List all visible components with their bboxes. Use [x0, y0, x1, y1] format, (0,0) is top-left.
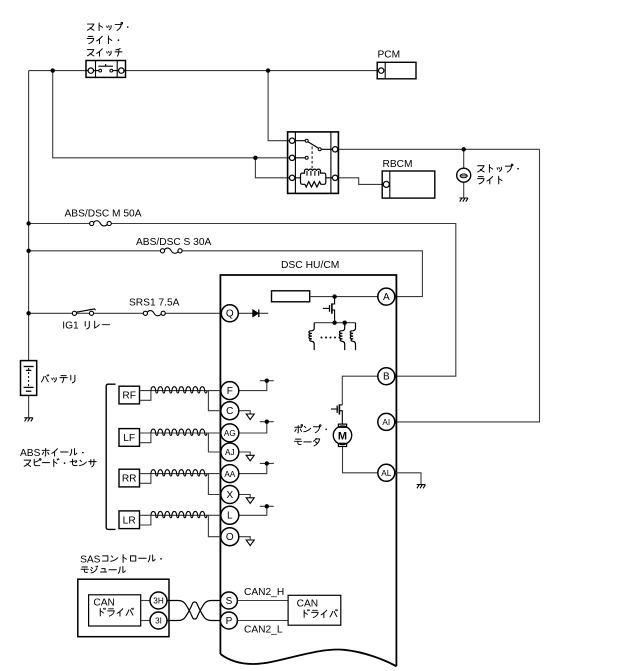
terminal AA	[221, 465, 239, 483]
relay box	[288, 132, 339, 194]
junction dot solenoid2	[343, 321, 347, 325]
svg-text:CAN: CAN	[93, 598, 115, 609]
twisted pair LR wavy	[151, 511, 207, 517]
svg-text:3H: 3H	[153, 597, 164, 606]
junction dot stop light tap	[462, 147, 466, 151]
wire RR shield drop	[207, 474, 222, 495]
wire left battery bus	[28, 71, 30, 361]
shield arrow O	[246, 540, 254, 546]
terminal AI	[378, 413, 395, 430]
wire top bus line	[29, 70, 86, 72]
svg-text:L: L	[227, 511, 233, 522]
wire stop light drop	[463, 149, 465, 168]
resistor (watchdog)	[272, 291, 310, 302]
wire M50A fuse line to B	[29, 223, 90, 225]
diode D1	[253, 310, 259, 318]
terminal L	[221, 506, 239, 524]
svg-text:P: P	[226, 616, 233, 627]
wire L shield out	[238, 506, 273, 515]
wire relay T3 feed	[255, 158, 290, 178]
junction dot AG shield	[265, 420, 269, 424]
label stop light	[478, 164, 519, 172]
wire stop light to ground	[463, 182, 465, 198]
wire relay T5 to RBCM	[338, 178, 383, 185]
wire LR leads	[140, 515, 151, 525]
svg-text:CAN2_L: CAN2_L	[244, 624, 283, 635]
terminal A	[378, 288, 395, 305]
svg-text:AA: AA	[224, 470, 235, 479]
svg-text:CAN: CAN	[297, 599, 319, 610]
svg-text:LR: LR	[123, 515, 136, 526]
svg-text:RF: RF	[122, 391, 136, 402]
twisted pair RR wavy	[151, 470, 207, 476]
solenoid coil right	[350, 323, 355, 350]
wire P to CAN driver	[237, 620, 288, 622]
ground battery	[24, 418, 33, 422]
CAN driver box DSC	[288, 595, 341, 625]
junction dot top2	[266, 68, 270, 72]
svg-text:SAS: SAS	[80, 554, 101, 565]
twisted pair LR straight	[151, 514, 221, 516]
PCM U1	[377, 62, 416, 79]
wire AA shield out	[238, 463, 273, 473]
ABS wheel speed sensor LF	[119, 429, 140, 447]
junction dot top1	[51, 68, 55, 72]
svg-text:LF: LF	[123, 433, 135, 444]
wire switch to PCM	[126, 70, 379, 72]
battery BT1	[21, 361, 37, 396]
svg-text:M: M	[338, 430, 347, 442]
pump motor M1	[333, 424, 351, 446]
svg-text:ABS: ABS	[20, 448, 41, 459]
relay terminal T3	[289, 175, 294, 180]
wire AL to ground	[395, 473, 421, 484]
RBCM U2	[382, 171, 435, 198]
ABS wheel speed sensor RR	[119, 469, 140, 487]
relay coil and resistor block	[301, 169, 326, 187]
svg-text:ABS/DSC M 50A: ABS/DSC M 50A	[65, 209, 142, 220]
twisted pair LF straight	[151, 432, 221, 434]
svg-text:S: S	[226, 596, 233, 607]
bracket wheel sensors	[106, 384, 115, 529]
relay terminal T1	[289, 138, 294, 143]
twisted pair CAN wire H	[167, 601, 220, 620]
twisted pair RR straight	[151, 473, 221, 475]
wire F shield out	[238, 381, 273, 391]
junction dot solenoid1	[332, 321, 336, 325]
relay contact wires	[295, 141, 333, 178]
terminal Q	[221, 305, 238, 322]
svg-text:IG1: IG1	[62, 321, 79, 332]
relay terminal T5	[332, 175, 337, 180]
terminal P	[220, 612, 237, 629]
DSC HU/CM box	[220, 275, 396, 666]
svg-text:ABS/DSC S 30A: ABS/DSC S 30A	[136, 237, 212, 248]
wire CAN box to 3H	[141, 600, 150, 602]
svg-text:AL: AL	[381, 469, 391, 478]
junction dot relay feed	[253, 156, 257, 160]
svg-text:AI: AI	[382, 418, 390, 427]
svg-text:RR: RR	[122, 474, 137, 485]
terminal AJ	[221, 443, 239, 461]
wire right vertical to AI	[395, 149, 540, 422]
wire AG shield out	[238, 422, 273, 433]
relay coil hatches	[307, 171, 319, 176]
wire drop to relay coil feed	[53, 71, 290, 158]
junction dot AA shield	[265, 461, 269, 465]
svg-text:C: C	[226, 406, 233, 417]
junction dot bus M50A	[26, 221, 30, 225]
shield arrow X	[246, 498, 254, 504]
fuse ABS/DSC M 50A	[90, 221, 112, 226]
wire LF shield drop	[207, 433, 222, 452]
junction dot L shield	[265, 504, 269, 508]
wire LR shield drop	[207, 515, 222, 536]
terminal X	[221, 486, 239, 504]
label pump motor	[295, 425, 327, 433]
svg-text:RBCM: RBCM	[383, 159, 413, 170]
svg-text:3I: 3I	[155, 617, 162, 626]
terminal 3I	[150, 612, 167, 629]
wire RF leads	[140, 391, 151, 401]
ABS wheel speed sensor RF	[119, 386, 140, 404]
fuse ABS/DSC S 30A	[160, 248, 182, 253]
terminal C	[221, 402, 239, 420]
wire IG1 SRS1 line to Q	[29, 312, 73, 314]
terminal B	[378, 368, 395, 385]
wire resistor to A	[310, 296, 378, 298]
shield arrow AJ	[246, 455, 254, 461]
SAS module box	[78, 579, 169, 637]
svg-text:F: F	[227, 386, 233, 397]
relay switch blade	[308, 142, 319, 149]
shield arrow C	[246, 414, 254, 420]
junction dot bus S30A	[26, 249, 30, 253]
relay contact circles	[305, 139, 308, 142]
MOSFET Q1 (valve relay)	[323, 297, 335, 323]
IG1 relay contact	[72, 309, 95, 316]
junction dot bus IG1	[26, 311, 30, 315]
svg-text:O: O	[226, 532, 234, 543]
wire RF shield drop	[207, 391, 222, 411]
wire LF leads	[140, 433, 151, 443]
solenoid coil left	[309, 323, 314, 350]
solenoid coil middle	[339, 323, 344, 350]
wire S to CAN driver	[237, 600, 288, 602]
wire CAN box to 3I	[141, 620, 150, 622]
relay terminal T2	[289, 155, 294, 160]
twisted pair RF straight	[151, 390, 221, 392]
wire O drain	[238, 537, 250, 540]
relay terminal T4	[332, 147, 337, 152]
ABS wheel speed sensor LR	[119, 511, 140, 529]
wire motor to AL	[343, 447, 379, 473]
ground AL	[417, 485, 426, 489]
twisted pair CAN wire L	[167, 602, 220, 621]
label stop light switch	[87, 22, 128, 30]
wire AJ drain	[238, 452, 250, 455]
twisted pair RF wavy	[151, 387, 207, 393]
svg-text:AJ: AJ	[225, 448, 235, 457]
relay armature dashed link	[311, 147, 313, 171]
svg-text:B: B	[383, 372, 390, 383]
wire B to MOSFET2	[342, 376, 378, 405]
terminal S	[220, 592, 237, 609]
svg-text:SRS1 7.5A: SRS1 7.5A	[129, 298, 180, 309]
svg-text:Q: Q	[226, 309, 234, 320]
svg-text:X: X	[226, 490, 233, 501]
wire battery to ground	[28, 395, 30, 417]
svg-text:DSC HU/CM: DSC HU/CM	[281, 260, 339, 271]
wire X drain	[238, 495, 250, 498]
wire drop to relay T1	[268, 71, 290, 141]
stop light bulb E	[457, 168, 471, 182]
dotted ellipsis	[321, 337, 341, 339]
wire Q diode stub	[238, 312, 268, 314]
terminal F	[221, 382, 239, 400]
stop light switch	[86, 61, 126, 78]
fuse SRS1 7.5A	[143, 311, 165, 316]
terminal AG	[221, 424, 239, 442]
terminal 3H	[150, 592, 167, 609]
svg-text:AG: AG	[224, 429, 236, 438]
terminal AL	[378, 464, 395, 481]
wire relay output to right	[338, 148, 540, 150]
svg-text:PCM: PCM	[378, 50, 401, 61]
wire C drain	[238, 411, 250, 414]
terminal O	[221, 528, 239, 546]
wire solenoid bus	[314, 322, 355, 324]
CAN driver box SAS	[89, 595, 141, 626]
wire RR leads	[140, 474, 151, 484]
ground stop light	[459, 198, 468, 202]
wire S30A fuse line to A	[29, 250, 161, 252]
twisted pair LF wavy	[151, 429, 207, 435]
junction dot F shield	[265, 379, 269, 383]
MOSFET Q2 (pump motor)	[331, 404, 342, 424]
junction dot A wire	[332, 294, 336, 298]
label battery	[41, 375, 74, 383]
svg-text:A: A	[383, 292, 390, 303]
svg-text:CAN2_H: CAN2_H	[244, 587, 284, 598]
